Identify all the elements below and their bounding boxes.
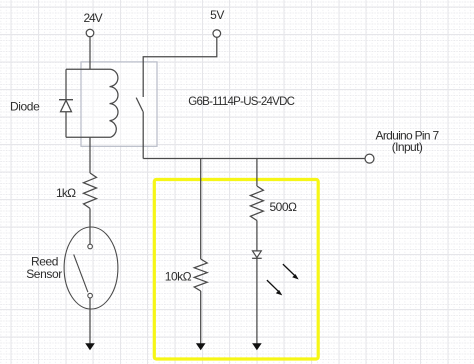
svg-text:10kΩ: 10kΩ	[165, 269, 192, 283]
diode D1 cathode bar	[59, 99, 73, 101]
wire diode branch	[65, 69, 67, 137]
reed contact top	[88, 244, 93, 249]
resistor R3 500Ω	[250, 186, 263, 221]
wire LED to ground	[256, 258, 258, 344]
svg-text:Diode: Diode	[10, 100, 40, 114]
wire R2 to ground	[200, 291, 202, 344]
coil L1 bottom lead	[66, 136, 111, 138]
wire R3 to LED	[256, 221, 258, 251]
wire coil to R1	[89, 137, 91, 173]
wire output bus to Arduino pin	[143, 158, 365, 160]
LED D2 triangle	[253, 251, 262, 258]
wire 5V to switch	[143, 37, 217, 97]
wire bus to R2	[200, 159, 202, 260]
svg-text:Sensor: Sensor	[26, 267, 62, 281]
highlight box (yellow)	[154, 180, 318, 360]
svg-text:1kΩ: 1kΩ	[56, 186, 76, 200]
svg-text:500Ω: 500Ω	[270, 200, 298, 214]
coil L1 top lead	[66, 68, 111, 70]
reed sensor body ellipse	[64, 227, 118, 309]
svg-text:24V: 24V	[83, 11, 102, 25]
LED light arrow lower	[267, 280, 282, 295]
ground arrow middle	[196, 343, 206, 350]
relay body box U1	[81, 62, 157, 146]
LED light arrow upper	[283, 264, 299, 279]
relay switch blade	[136, 98, 143, 112]
ground arrow right	[252, 343, 262, 350]
coil L1 winding	[110, 69, 119, 137]
diode D1 triangle	[61, 100, 72, 111]
wire bus to R3	[256, 159, 258, 187]
terminal 5V	[213, 30, 221, 38]
wire R1 to reed sensor	[89, 208, 91, 244]
svg-text:G6B-1114P-US-24VDC: G6B-1114P-US-24VDC	[188, 96, 294, 108]
LED D2 cathode bar	[252, 257, 262, 259]
reed contact bottom	[88, 293, 93, 298]
terminal Arduino pin 7	[365, 154, 374, 163]
ground arrow left	[85, 343, 95, 350]
wire 24V to coil	[89, 37, 91, 69]
svg-text:(Input): (Input)	[392, 140, 423, 154]
resistor R2 10kΩ	[194, 259, 207, 291]
resistor R1 1kΩ	[84, 173, 97, 208]
wire reed sensor to ground	[89, 298, 91, 344]
terminal 24V	[86, 29, 94, 37]
svg-text:5V: 5V	[210, 8, 224, 22]
wire switch to output node	[142, 111, 144, 158]
reed switch blade	[74, 255, 88, 293]
